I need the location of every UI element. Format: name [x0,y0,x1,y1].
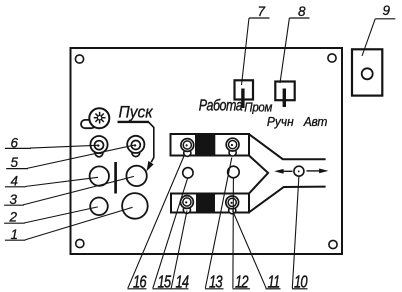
toggle switch (item 8) [275,82,294,108]
svg-text:Ручн: Ручн [267,114,294,129]
callout number 14 [171,273,189,292]
label Пром [244,100,273,115]
funnel inner wedge [249,156,268,194]
lower terminal block [171,194,249,213]
control knob (item 4) [90,166,109,185]
leader line item 16 [128,156,184,288]
divider bar between knobs [114,162,117,194]
callout number 6 [5,135,31,150]
ball in channel (item 10) [294,166,304,176]
mounting screw hole top-left [75,55,83,63]
callout number 2 [4,209,25,224]
callout number 10 [292,273,308,292]
indicator lamp symbol HL [81,108,109,128]
mounting screw hole top-right [328,54,336,62]
svg-text:Пром: Пром [244,100,273,115]
callout number 9 [375,3,395,19]
label Работа [199,97,243,115]
upper terminal block [171,134,250,156]
side bracket (item 9) [352,49,382,95]
svg-text:Пуск: Пуск [119,103,154,122]
callout number 13 [205,273,224,292]
left direction arrow [274,169,292,174]
small hole (item 12) [228,166,240,178]
lamp terminal (item 6) [90,136,107,157]
upper block left screw (item 16) [181,139,194,157]
callout number 15 [153,273,172,292]
leader line item 2 [24,207,98,223]
Пуск pointer with arrow [118,122,154,171]
callout number 4 [5,174,26,189]
label Пуск [119,103,154,122]
leader line item 15 [153,178,188,288]
leader line item 12 [232,178,235,288]
callout number 1 [5,227,26,242]
callout number 16 [128,273,148,292]
callout number 3 [4,192,24,207]
upper block right screw (item 13) [226,138,239,156]
svg-text:Авт: Авт [303,114,327,129]
callout number 11 [266,273,281,292]
leader line item 7 [242,18,250,85]
funnel channel bottom edge [249,187,326,213]
leader line item 1 [25,207,133,240]
callout number 8 [289,4,309,19]
small hole (item 15) [183,168,193,178]
control knob (item 3) [126,166,146,186]
leader line item 3 [23,176,134,205]
leader line item 10 [292,176,299,288]
svg-text:Работа: Работа [199,97,243,115]
callout number 12 [233,273,251,292]
label Ручн Авт [267,114,327,129]
leader line item 13 [205,158,232,289]
leader line item 9 [362,19,375,56]
leader line item 5 [27,145,135,168]
push button Пуск (item 5) [127,136,144,157]
lower block left screw (item 14) [181,196,194,214]
leader line item 11 [233,211,267,289]
control knob (item 2) [90,198,108,216]
mounting screw hole bottom-left [76,239,84,247]
leader line item 8 [280,18,289,83]
svg-text:2: 2 [9,209,18,224]
mounting screw hole bottom-right [329,240,337,248]
control knob (item 1) [122,193,148,219]
lower block right screw (item 11) [226,196,239,214]
svg-text:8: 8 [298,4,306,19]
svg-text:7: 7 [258,4,266,19]
panel front plate [71,48,343,254]
callout number 7 [249,4,270,19]
right direction arrow [307,169,329,174]
funnel channel top edge [249,134,326,159]
leader line item 14 [171,211,187,289]
callout number 5 [6,155,28,170]
svg-text:9: 9 [383,3,391,18]
leader line item 6 [30,145,98,148]
toggle switch (item 7) [235,80,254,108]
svg-text:5: 5 [11,155,19,170]
leader line item 4 [25,177,98,186]
